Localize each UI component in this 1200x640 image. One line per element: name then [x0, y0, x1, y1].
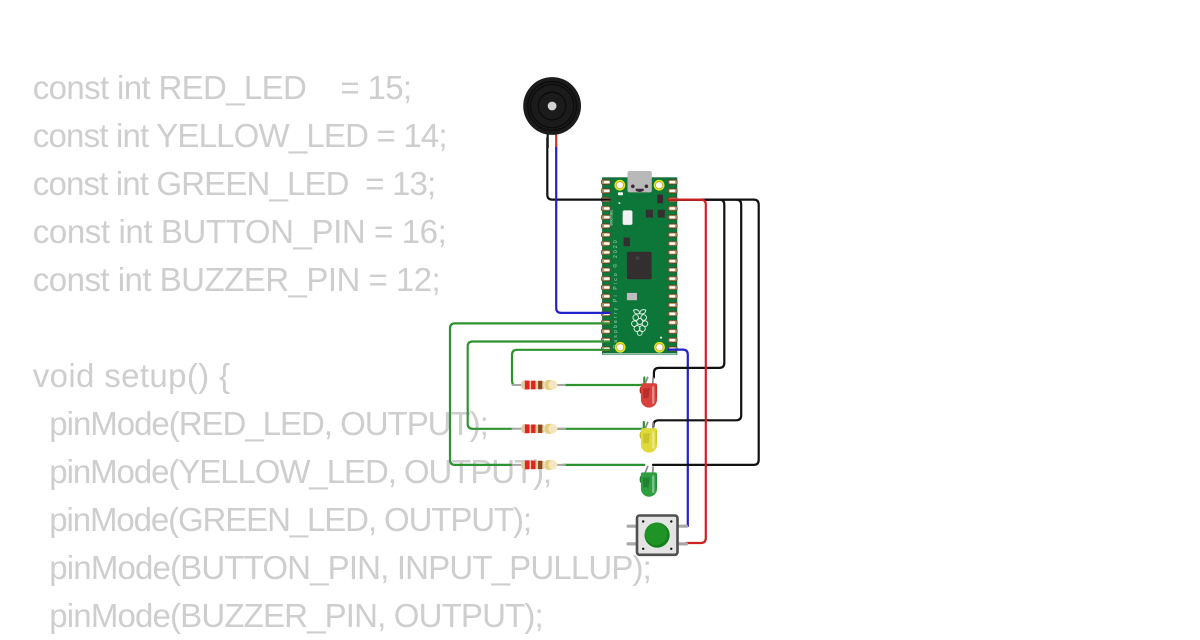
svg-text:BOOTSEL: BOOTSEL [610, 209, 614, 225]
svg-text:Raspberry Pi Pico © 2020: Raspberry Pi Pico © 2020 [612, 238, 619, 348]
svg-text:USB: USB [635, 196, 642, 200]
svg-text:LED: LED [616, 196, 623, 200]
